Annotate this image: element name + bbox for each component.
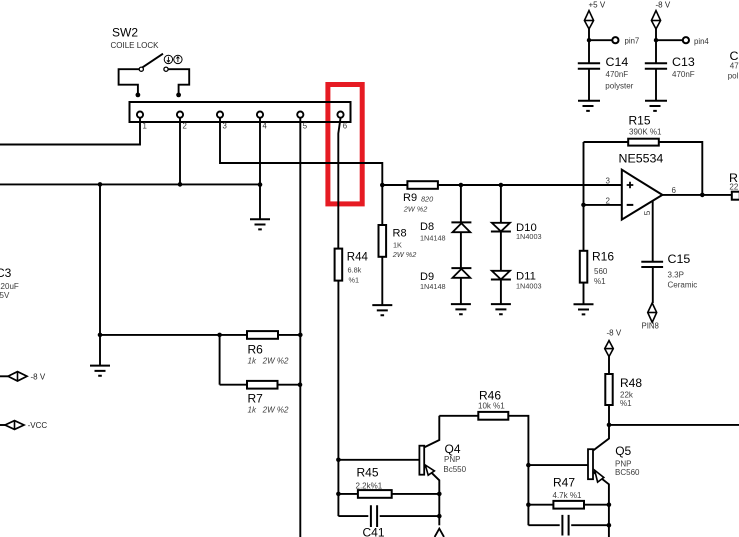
svg-text:1N4148: 1N4148 <box>420 282 446 291</box>
svg-text:390K %1: 390K %1 <box>629 128 662 137</box>
svg-text:3: 3 <box>606 177 611 186</box>
svg-text:C3: C3 <box>0 266 12 280</box>
svg-text:-8 V: -8 V <box>656 1 671 10</box>
svg-text:Ceramic: Ceramic <box>668 281 698 290</box>
svg-text:R16: R16 <box>592 250 614 264</box>
svg-text:R8: R8 <box>393 228 407 240</box>
svg-text:PIN8: PIN8 <box>642 322 659 331</box>
svg-text:220uF: 220uF <box>0 282 19 291</box>
svg-text:Q5: Q5 <box>615 444 631 458</box>
svg-text:3: 3 <box>223 122 227 131</box>
svg-text:2W %2: 2W %2 <box>392 250 417 259</box>
svg-text:NE5534: NE5534 <box>619 152 664 166</box>
svg-text:560: 560 <box>594 267 608 276</box>
svg-text:pin7: pin7 <box>625 36 640 45</box>
svg-text:C15: C15 <box>668 252 691 266</box>
svg-text:SW2: SW2 <box>112 26 138 40</box>
svg-text:R15: R15 <box>629 114 651 128</box>
svg-text:5: 5 <box>303 122 308 131</box>
svg-text:-8 V: -8 V <box>31 372 46 381</box>
svg-text:Bc550: Bc550 <box>443 465 466 474</box>
svg-text:2: 2 <box>183 122 187 131</box>
svg-text:6: 6 <box>672 186 677 195</box>
svg-text:820: 820 <box>421 195 433 204</box>
svg-text:R7: R7 <box>248 392 264 406</box>
svg-text:R6: R6 <box>248 343 264 357</box>
svg-text:R46: R46 <box>479 389 501 403</box>
svg-text:1N4148: 1N4148 <box>420 233 446 242</box>
svg-text:pin4: pin4 <box>694 37 709 46</box>
svg-text:47: 47 <box>730 62 739 71</box>
svg-text:PNP: PNP <box>444 455 460 464</box>
svg-text:R9: R9 <box>403 192 417 204</box>
svg-text:5: 5 <box>642 210 652 215</box>
svg-text:R45: R45 <box>357 466 379 480</box>
svg-text:1: 1 <box>143 122 147 131</box>
svg-text:COILE LOCK: COILE LOCK <box>111 41 160 50</box>
svg-text:C41: C41 <box>363 526 385 537</box>
svg-text:1N4003: 1N4003 <box>516 282 542 291</box>
svg-text:2: 2 <box>606 197 611 206</box>
svg-text:1k 2W %2: 1k 2W %2 <box>248 406 289 415</box>
svg-text:R44: R44 <box>347 252 369 264</box>
svg-text:R47: R47 <box>553 476 575 490</box>
svg-text:470nF: 470nF <box>606 70 629 79</box>
svg-text:10k %1: 10k %1 <box>478 402 505 411</box>
svg-text:BC560: BC560 <box>615 468 640 477</box>
svg-text:6: 6 <box>343 122 347 131</box>
svg-text:-VCC: -VCC <box>28 421 48 430</box>
svg-text:C13: C13 <box>672 55 695 69</box>
svg-text:%1: %1 <box>620 399 632 408</box>
svg-text:1k 2W %2: 1k 2W %2 <box>248 357 289 366</box>
svg-text:6.8k: 6.8k <box>348 266 362 275</box>
svg-text:2.2k%1: 2.2k%1 <box>356 482 383 491</box>
svg-text:470nF: 470nF <box>672 70 695 79</box>
svg-text:pol: pol <box>728 71 739 80</box>
svg-text:-8 V: -8 V <box>607 329 622 338</box>
svg-text:2W %2: 2W %2 <box>403 205 428 214</box>
svg-text:25V: 25V <box>0 291 10 300</box>
svg-text:polyster: polyster <box>605 81 633 90</box>
svg-text:4.7k %1: 4.7k %1 <box>553 491 582 500</box>
svg-text:PNP: PNP <box>615 460 631 469</box>
svg-text:%1: %1 <box>594 277 606 286</box>
svg-text:1K: 1K <box>393 240 402 249</box>
svg-text:R48: R48 <box>620 376 642 390</box>
svg-text:4: 4 <box>263 122 268 131</box>
svg-text:D8: D8 <box>420 221 434 233</box>
svg-text:+5 V: +5 V <box>589 1 606 10</box>
svg-text:3.3P: 3.3P <box>668 271 684 280</box>
svg-text:Q4: Q4 <box>445 442 461 456</box>
svg-text:C14: C14 <box>606 55 629 69</box>
svg-text:22: 22 <box>729 182 738 191</box>
svg-text:%1: %1 <box>349 276 360 285</box>
svg-text:1N4003: 1N4003 <box>516 232 542 241</box>
